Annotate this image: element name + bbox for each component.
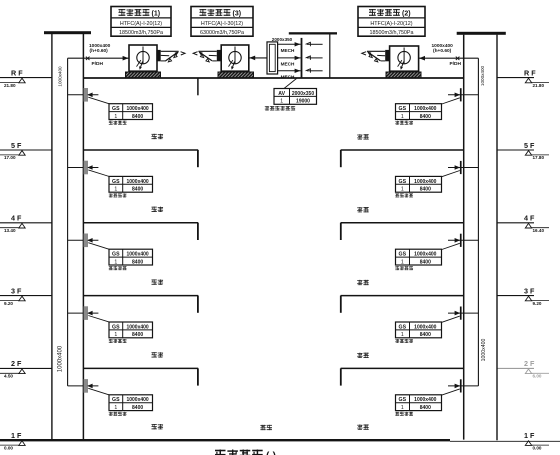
fan concrete base bbox=[126, 72, 161, 78]
damper tag table GS right 4 bbox=[396, 322, 442, 338]
corridor duct right bbox=[341, 149, 464, 151]
leader line bbox=[88, 243, 109, 250]
svg-text:1000x400: 1000x400 bbox=[126, 252, 148, 258]
svg-text:1000x400: 1000x400 bbox=[126, 324, 148, 330]
exhaust valve right floor 1 bbox=[448, 94, 478, 96]
room label zou-dao left bbox=[152, 279, 157, 284]
exhaust valve left floor 2 bbox=[68, 167, 99, 169]
svg-text:1000x400: 1000x400 bbox=[480, 65, 485, 86]
svg-text:8400: 8400 bbox=[132, 114, 143, 120]
left shaft cap bbox=[44, 31, 91, 34]
louver intake arrow 3 bbox=[307, 70, 323, 72]
svg-text:4 F: 4 F bbox=[524, 214, 535, 223]
title chars bbox=[200, 9, 207, 16]
room label zou-dao left bbox=[152, 424, 157, 429]
svg-text:1000x400: 1000x400 bbox=[126, 397, 148, 403]
svg-text:1 F: 1 F bbox=[11, 431, 22, 440]
svg-text:(h+0.60): (h+0.60) bbox=[90, 48, 109, 54]
svg-text:9.20: 9.20 bbox=[4, 301, 13, 306]
svg-text:AV: AV bbox=[278, 91, 285, 97]
exhaust valve left floor 4 bbox=[68, 312, 99, 314]
svg-text:18500m3/h,750Pa: 18500m3/h,750Pa bbox=[119, 30, 163, 36]
left shaft duct partition bbox=[67, 58, 69, 386]
room label zou-dao left bbox=[152, 352, 157, 357]
svg-text:16.40: 16.40 bbox=[533, 228, 545, 233]
svg-text:GS: GS bbox=[399, 252, 407, 258]
leader line bbox=[442, 98, 460, 104]
fan concrete base bbox=[386, 72, 421, 78]
louver tag table AV bbox=[274, 89, 317, 105]
room label zou-dao right bbox=[357, 353, 362, 358]
louver intake arrow 2 bbox=[307, 57, 323, 59]
fan 1 flexible outlet bbox=[161, 50, 179, 52]
louver caption bbox=[265, 106, 269, 110]
fan 3 spec box bbox=[191, 7, 253, 37]
svg-text:19000: 19000 bbox=[296, 99, 310, 105]
right shaft wall outer bbox=[496, 35, 498, 441]
svg-text:2000x350: 2000x350 bbox=[272, 37, 293, 42]
room label zou-dao right bbox=[357, 207, 362, 212]
svg-text:(-): (-) bbox=[266, 451, 276, 455]
left shaft wall outer bbox=[51, 34, 53, 440]
damper tag table GS left 3 bbox=[109, 249, 153, 265]
leader line bbox=[442, 243, 460, 249]
tag caption bbox=[109, 266, 113, 270]
intake duct riser bbox=[267, 42, 278, 74]
svg-text:8400: 8400 bbox=[420, 187, 431, 193]
tag caption bbox=[109, 193, 113, 197]
tag caption bbox=[395, 339, 399, 343]
corridor duct left bbox=[83, 149, 198, 151]
damper tag table GS right 2 bbox=[396, 176, 442, 192]
exhaust valve left floor 1 bbox=[68, 94, 99, 96]
fan 2 spec box bbox=[358, 7, 425, 37]
fan 2 suction duct from louver shaft bbox=[249, 57, 267, 59]
svg-text:1000x400: 1000x400 bbox=[414, 179, 436, 185]
louver shaft back wall bbox=[329, 34, 331, 78]
svg-text:1: 1 bbox=[401, 332, 404, 338]
leader line bbox=[442, 389, 460, 395]
svg-text:MECH: MECH bbox=[281, 48, 295, 53]
exhaust valve right floor 5 bbox=[448, 385, 478, 387]
floor level left 2 F bbox=[0, 367, 52, 369]
room label zou-dao right bbox=[357, 424, 362, 429]
svg-text:P/DH: P/DH bbox=[92, 61, 104, 67]
svg-text:1: 1 bbox=[401, 259, 404, 265]
svg-text:GS: GS bbox=[112, 252, 120, 258]
svg-text:63000m3/h,750Pa: 63000m3/h,750Pa bbox=[200, 30, 244, 36]
wall stub below roof bbox=[197, 78, 199, 95]
tag caption bbox=[109, 121, 113, 125]
tag caption bbox=[109, 412, 113, 416]
svg-text:1 F: 1 F bbox=[524, 431, 535, 440]
svg-text:P/DH: P/DH bbox=[450, 61, 462, 67]
fan concrete base bbox=[218, 72, 254, 78]
svg-text:GS: GS bbox=[399, 106, 407, 112]
svg-text:1: 1 bbox=[114, 259, 117, 265]
leader line bbox=[442, 316, 460, 322]
damper tag table GS right 3 bbox=[396, 249, 442, 265]
svg-text:1000x400: 1000x400 bbox=[89, 43, 111, 49]
fan 1 suction duct from left shaft bbox=[68, 57, 129, 59]
duct crossing mark right bbox=[456, 57, 460, 60]
damper tag table GS left 4 bbox=[109, 322, 153, 338]
svg-text:1: 1 bbox=[280, 99, 283, 105]
louver branch 2 bbox=[278, 57, 301, 59]
leader line bbox=[88, 316, 109, 323]
svg-text:1: 1 bbox=[114, 332, 117, 338]
svg-text:1000x400: 1000x400 bbox=[414, 252, 436, 258]
corridor duct left bbox=[83, 367, 198, 369]
ground line 1F bbox=[0, 439, 450, 441]
svg-text:8400: 8400 bbox=[132, 332, 143, 338]
exhaust valve right floor 2 bbox=[448, 167, 478, 169]
fan 3 flexible outlet bbox=[367, 50, 385, 52]
floor level left R F bbox=[0, 77, 52, 79]
corridor duct left bbox=[83, 295, 198, 297]
damper tag table GS right 1 bbox=[396, 104, 442, 120]
corridor duct right bbox=[341, 222, 464, 224]
leader line bbox=[88, 170, 109, 177]
svg-text:8400: 8400 bbox=[132, 405, 143, 411]
svg-text:4 F: 4 F bbox=[11, 214, 22, 223]
svg-text:GS: GS bbox=[112, 179, 120, 185]
svg-text:17.00: 17.00 bbox=[4, 155, 16, 160]
exhaust valve left floor 5 bbox=[68, 385, 99, 387]
svg-text:21.80: 21.80 bbox=[533, 83, 545, 88]
right shaft wall inner bbox=[463, 35, 465, 440]
tag caption bbox=[109, 339, 113, 343]
floor level right 3 F bbox=[497, 295, 534, 297]
tag caption bbox=[395, 193, 399, 197]
leader line bbox=[88, 97, 109, 104]
floor level left 5 F bbox=[0, 149, 52, 151]
fan 2 inlet collar bbox=[217, 50, 221, 61]
floor level right 5 F bbox=[497, 149, 534, 151]
louver intake arrow 1 bbox=[307, 43, 323, 45]
exhaust valve right floor 3 bbox=[448, 239, 478, 241]
left shaft wall inner bbox=[82, 34, 84, 440]
floor level left 4 F bbox=[0, 222, 52, 224]
room label zou-dao right bbox=[357, 280, 362, 285]
svg-text:3 F: 3 F bbox=[11, 286, 22, 295]
fan 3 suction duct from right shaft bbox=[419, 57, 479, 59]
floor level left 3 F bbox=[0, 295, 52, 297]
svg-text:MECH: MECH bbox=[281, 62, 295, 67]
fan 3 discharge arrow bbox=[362, 52, 366, 55]
damper tag table GS left 2 bbox=[109, 176, 153, 192]
svg-text:MECH: MECH bbox=[281, 74, 295, 79]
tag caption bbox=[395, 412, 399, 416]
louver shaft cap bbox=[289, 32, 337, 34]
svg-text:5 F: 5 F bbox=[524, 141, 535, 150]
svg-text:1: 1 bbox=[114, 405, 117, 411]
svg-text:9.20: 9.20 bbox=[533, 301, 542, 306]
svg-text:0.00: 0.00 bbox=[4, 445, 13, 450]
leader line bbox=[442, 171, 460, 177]
svg-text:1000x400: 1000x400 bbox=[57, 66, 62, 87]
corridor duct right bbox=[341, 367, 464, 369]
svg-text:13.40: 13.40 bbox=[4, 228, 16, 233]
svg-text:GS: GS bbox=[399, 397, 407, 403]
fan 1 casing bbox=[129, 45, 157, 71]
corridor duct left bbox=[83, 222, 198, 224]
svg-text:8400: 8400 bbox=[420, 405, 431, 411]
svg-text:8400: 8400 bbox=[420, 114, 431, 120]
svg-text:GS: GS bbox=[399, 179, 407, 185]
svg-text:HTFC(A)-I-20(12): HTFC(A)-I-20(12) bbox=[120, 21, 162, 27]
svg-text:1000x400: 1000x400 bbox=[432, 43, 454, 49]
floor level right R F bbox=[497, 77, 534, 79]
damper tag table GS left 1 bbox=[109, 104, 153, 120]
svg-text:1: 1 bbox=[114, 187, 117, 193]
fan 1 discharge arrow bbox=[181, 52, 185, 55]
svg-text:1: 1 bbox=[401, 187, 404, 193]
svg-text:(1): (1) bbox=[152, 11, 161, 18]
svg-text:1: 1 bbox=[114, 114, 117, 120]
svg-text:8400: 8400 bbox=[420, 332, 431, 338]
room label men-ting center 1F bbox=[260, 425, 265, 430]
louver branch 1 bbox=[278, 43, 301, 45]
floor level right 1 F bbox=[450, 440, 560, 442]
svg-text:17.80: 17.80 bbox=[533, 155, 545, 160]
svg-text:8400: 8400 bbox=[132, 187, 143, 193]
svg-text:(h+0.60): (h+0.60) bbox=[433, 48, 452, 54]
svg-text:18500m3/h,750Pa: 18500m3/h,750Pa bbox=[369, 30, 413, 36]
roof slab line bbox=[83, 77, 463, 79]
fan 3 inlet collar bbox=[385, 50, 389, 61]
right shaft cap bbox=[457, 32, 506, 35]
svg-text:R F: R F bbox=[524, 68, 536, 77]
svg-text:2 F: 2 F bbox=[11, 359, 22, 368]
svg-text:8400: 8400 bbox=[132, 259, 143, 265]
svg-text:1000x400: 1000x400 bbox=[58, 345, 64, 372]
louver branch 3 bbox=[278, 70, 301, 72]
floor level right 2 F bbox=[497, 367, 534, 369]
svg-text:R F: R F bbox=[11, 68, 23, 77]
tag caption bbox=[395, 121, 399, 125]
svg-text:1: 1 bbox=[401, 405, 404, 411]
fan 2 flexible outlet bbox=[198, 50, 216, 52]
fan 1 outlet collar bbox=[156, 50, 160, 61]
svg-text:1000x400: 1000x400 bbox=[414, 324, 436, 330]
leader line bbox=[88, 388, 109, 395]
title chars bbox=[369, 9, 376, 16]
exhaust valve right floor 4 bbox=[448, 312, 478, 314]
svg-text:4.50: 4.50 bbox=[4, 374, 13, 379]
svg-text:5 F: 5 F bbox=[11, 141, 22, 150]
fan 2 discharge arrow bbox=[193, 52, 197, 55]
svg-text:(2): (2) bbox=[402, 11, 411, 18]
svg-text:GS: GS bbox=[112, 106, 120, 112]
svg-text:2000x350: 2000x350 bbox=[292, 91, 314, 97]
fan 2 casing bbox=[221, 45, 249, 71]
svg-text:HTFC(A)-I-20(12): HTFC(A)-I-20(12) bbox=[370, 21, 412, 27]
svg-text:8400: 8400 bbox=[420, 259, 431, 265]
fan 3 casing bbox=[390, 46, 419, 71]
svg-text:1000x400: 1000x400 bbox=[414, 106, 436, 112]
duct crossing mark left bbox=[86, 57, 90, 60]
room label zou-dao left bbox=[152, 134, 157, 139]
damper tag table GS right 5 bbox=[396, 395, 442, 411]
exhaust valve left floor 3 bbox=[68, 239, 99, 241]
title chars bbox=[119, 9, 126, 16]
right shaft duct partition bbox=[477, 58, 479, 386]
svg-text:2 F: 2 F bbox=[524, 359, 535, 368]
svg-text:1000x400: 1000x400 bbox=[126, 179, 148, 185]
svg-text:GS: GS bbox=[399, 324, 407, 330]
damper tag table GS left 5 bbox=[109, 395, 153, 411]
leader to AV table bbox=[284, 79, 297, 89]
svg-text:1000x400: 1000x400 bbox=[414, 397, 436, 403]
svg-text:1000x400: 1000x400 bbox=[126, 106, 148, 112]
svg-text:1: 1 bbox=[401, 114, 404, 120]
svg-text:(3): (3) bbox=[233, 11, 242, 18]
svg-text:21.80: 21.80 bbox=[4, 83, 16, 88]
louver shaft face (thick) bbox=[301, 38, 303, 78]
fan 1 spec box bbox=[111, 7, 171, 37]
svg-text:3 F: 3 F bbox=[524, 286, 535, 295]
svg-text:GS: GS bbox=[112, 324, 120, 330]
svg-text:HTFC(A)-I-30(12): HTFC(A)-I-30(12) bbox=[201, 21, 243, 27]
svg-text:GS: GS bbox=[112, 397, 120, 403]
tag caption bbox=[395, 266, 399, 270]
svg-text:6.00: 6.00 bbox=[533, 374, 542, 379]
room label zou-dao right bbox=[357, 134, 362, 139]
room label zou-dao left bbox=[152, 207, 157, 212]
svg-text:1000x400: 1000x400 bbox=[481, 338, 487, 361]
corridor duct right bbox=[341, 295, 464, 297]
svg-text:0.00: 0.00 bbox=[533, 445, 542, 450]
title text bbox=[215, 450, 226, 455]
floor level right 4 F bbox=[497, 222, 534, 224]
